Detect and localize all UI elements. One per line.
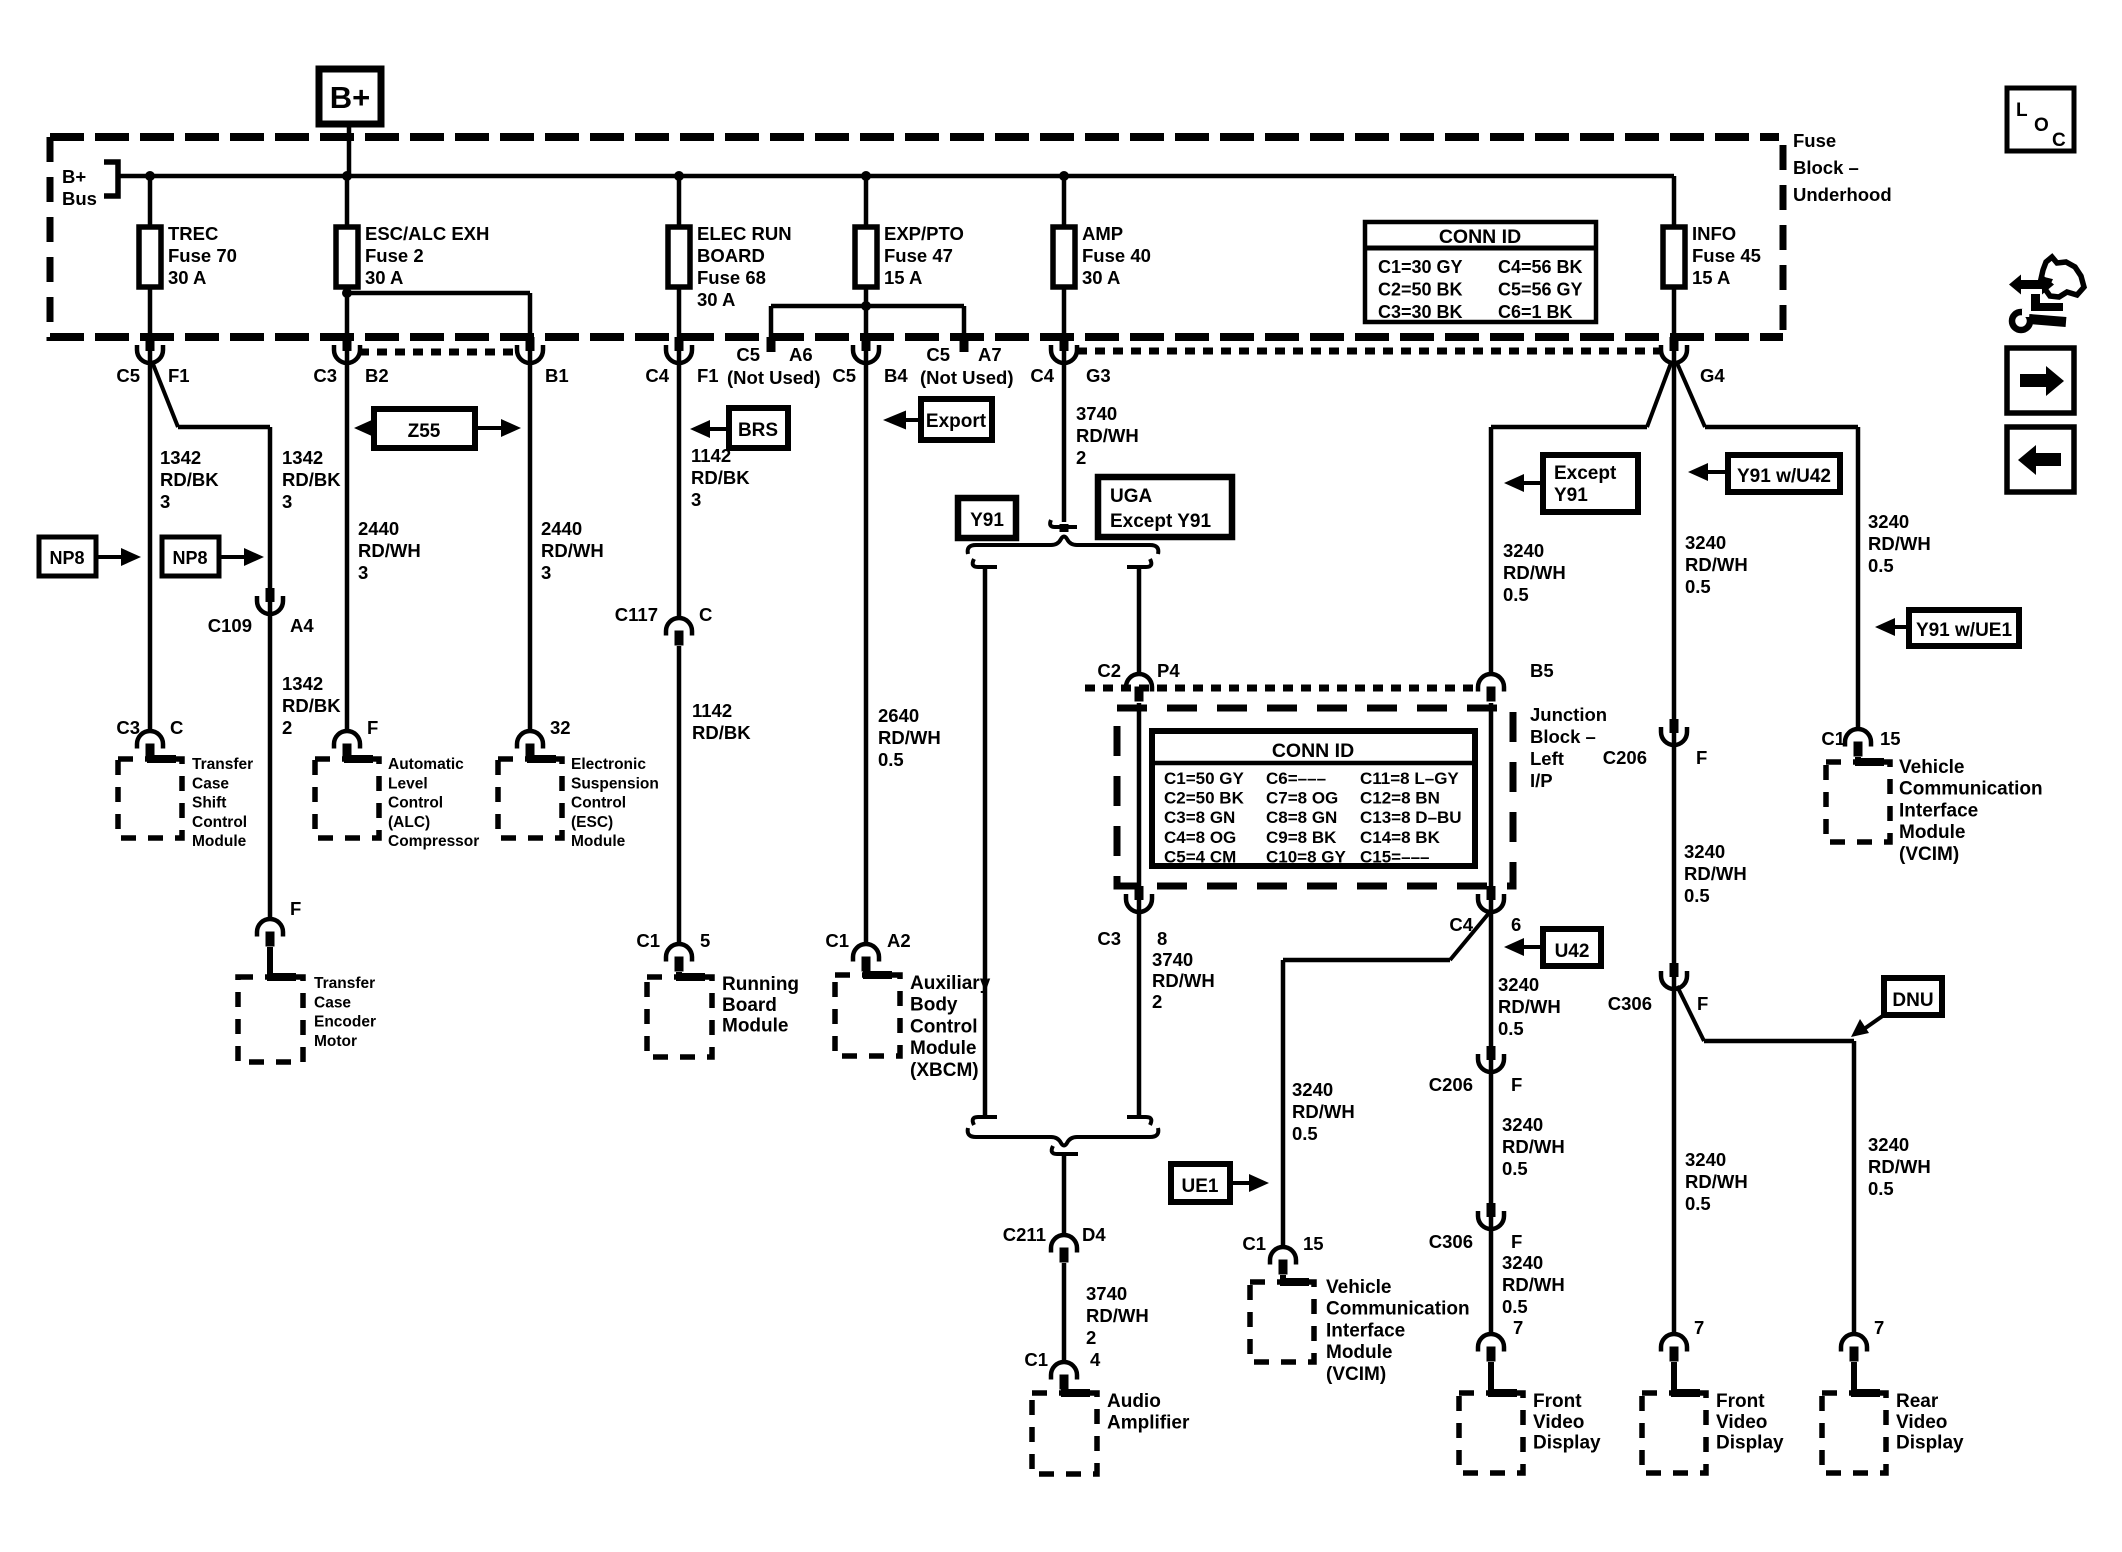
svg-text:EXP/PTO: EXP/PTO	[884, 223, 964, 244]
svg-text:UE1: UE1	[1182, 1176, 1219, 1197]
svg-text:(VCIM): (VCIM)	[1899, 844, 1959, 865]
svg-text:(XBCM): (XBCM)	[910, 1060, 979, 1081]
svg-text:RD/WH: RD/WH	[541, 540, 604, 561]
svg-text:15 A: 15 A	[884, 267, 922, 288]
svg-text:B+: B+	[62, 166, 86, 187]
svg-text:Module: Module	[1899, 822, 1966, 843]
svg-text:RD/BK: RD/BK	[160, 469, 219, 490]
svg-text:3240: 3240	[1498, 974, 1539, 995]
svg-text:Interface: Interface	[1326, 1320, 1405, 1341]
svg-text:C: C	[170, 717, 183, 738]
svg-text:C5: C5	[736, 344, 760, 365]
svg-text:Board: Board	[722, 995, 777, 1016]
svg-text:Export: Export	[926, 411, 987, 432]
svg-text:3240: 3240	[1292, 1079, 1333, 1100]
svg-text:RD/WH: RD/WH	[1498, 996, 1561, 1017]
svg-text:A2: A2	[887, 930, 911, 951]
svg-text:8: 8	[1157, 928, 1167, 949]
svg-text:CONN ID: CONN ID	[1439, 226, 1521, 248]
svg-text:1142: 1142	[691, 445, 731, 466]
svg-text:0.5: 0.5	[1498, 1018, 1524, 1039]
svg-text:C3: C3	[313, 365, 337, 386]
svg-text:Interface: Interface	[1899, 800, 1978, 821]
svg-text:F: F	[367, 717, 378, 738]
svg-text:C211: C211	[1003, 1224, 1046, 1245]
svg-text:RD/WH: RD/WH	[1076, 425, 1139, 446]
svg-text:0.5: 0.5	[1868, 1178, 1894, 1199]
svg-text:RD/WH: RD/WH	[1685, 1171, 1748, 1192]
svg-text:Video: Video	[1896, 1412, 1947, 1433]
svg-text:Body: Body	[910, 995, 958, 1016]
svg-text:Fuse 47: Fuse 47	[884, 245, 953, 266]
svg-text:RD/WH: RD/WH	[1502, 1274, 1565, 1295]
svg-text:BRS: BRS	[738, 420, 778, 441]
svg-text:C4=56 BK: C4=56 BK	[1498, 257, 1583, 277]
svg-text:Audio: Audio	[1107, 1391, 1161, 1412]
svg-text:RD/BK: RD/BK	[282, 695, 341, 716]
svg-text:C3=8 GN: C3=8 GN	[1164, 808, 1235, 827]
svg-text:30 A: 30 A	[365, 267, 403, 288]
svg-text:C1=30 GY: C1=30 GY	[1378, 257, 1463, 277]
svg-text:NP8: NP8	[172, 548, 207, 568]
svg-text:(ESC): (ESC)	[571, 814, 613, 831]
svg-text:C4: C4	[1030, 365, 1054, 386]
svg-text:C1: C1	[1242, 1233, 1266, 1254]
svg-text:0.5: 0.5	[1868, 555, 1894, 576]
svg-text:P4: P4	[1157, 660, 1180, 681]
svg-text:Motor: Motor	[314, 1033, 357, 1050]
svg-text:C4: C4	[1449, 914, 1473, 935]
svg-text:RD/WH: RD/WH	[878, 727, 941, 748]
svg-text:Video: Video	[1716, 1412, 1767, 1433]
svg-text:RD/WH: RD/WH	[1684, 863, 1747, 884]
svg-text:2640: 2640	[878, 705, 919, 726]
svg-text:(Not Used): (Not Used)	[727, 367, 821, 388]
svg-text:C7=8 OG: C7=8 OG	[1266, 789, 1338, 808]
svg-text:Shift: Shift	[192, 795, 226, 812]
svg-text:A4: A4	[290, 615, 314, 636]
svg-text:Display: Display	[1716, 1433, 1784, 1454]
svg-text:C1=50 GY: C1=50 GY	[1164, 769, 1245, 788]
svg-text:A7: A7	[978, 344, 1002, 365]
svg-text:Display: Display	[1896, 1433, 1964, 1454]
svg-text:Front: Front	[1533, 1391, 1582, 1412]
svg-text:Front: Front	[1716, 1391, 1765, 1412]
svg-text:C5: C5	[926, 344, 950, 365]
svg-text:Fuse: Fuse	[1793, 130, 1836, 151]
svg-text:F: F	[1511, 1231, 1522, 1252]
svg-text:RD/BK: RD/BK	[282, 469, 341, 490]
svg-text:Bus: Bus	[62, 188, 97, 209]
svg-text:Block –: Block –	[1793, 157, 1859, 178]
svg-text:Video: Video	[1533, 1412, 1584, 1433]
svg-text:3: 3	[160, 491, 170, 512]
svg-text:Vehicle: Vehicle	[1899, 757, 1965, 778]
svg-text:UGA: UGA	[1110, 486, 1153, 507]
svg-text:RD/WH: RD/WH	[358, 540, 421, 561]
svg-text:4: 4	[1090, 1349, 1101, 1370]
svg-text:RD/BK: RD/BK	[691, 467, 750, 488]
svg-text:RD/WH: RD/WH	[1503, 562, 1566, 583]
svg-text:ELEC RUN: ELEC RUN	[697, 223, 792, 244]
svg-text:3: 3	[282, 491, 292, 512]
svg-text:Fuse 40: Fuse 40	[1082, 245, 1151, 266]
svg-text:3740: 3740	[1076, 403, 1117, 424]
svg-text:Block –: Block –	[1530, 726, 1596, 747]
svg-text:C9=8 BK: C9=8 BK	[1266, 828, 1337, 847]
svg-text:5: 5	[700, 930, 710, 951]
svg-text:C5=56 GY: C5=56 GY	[1498, 280, 1583, 300]
svg-text:Y91: Y91	[1554, 485, 1588, 506]
svg-text:RD/WH: RD/WH	[1152, 970, 1215, 991]
svg-text:Module: Module	[722, 1016, 789, 1037]
svg-text:Except Y91: Except Y91	[1110, 511, 1211, 532]
svg-text:C2: C2	[1097, 660, 1121, 681]
svg-text:Control: Control	[192, 814, 247, 831]
svg-text:G4: G4	[1700, 365, 1725, 386]
svg-text:F: F	[1697, 993, 1708, 1014]
svg-text:C5: C5	[116, 365, 140, 386]
svg-text:C6=1 BK: C6=1 BK	[1498, 302, 1573, 322]
svg-text:2: 2	[282, 717, 292, 738]
svg-text:0.5: 0.5	[1292, 1123, 1318, 1144]
svg-text:2440: 2440	[541, 518, 582, 539]
svg-text:0.5: 0.5	[878, 749, 904, 770]
svg-text:(VCIM): (VCIM)	[1326, 1364, 1386, 1385]
svg-text:C206: C206	[1429, 1074, 1473, 1095]
svg-text:C1: C1	[1821, 728, 1845, 749]
svg-text:B+: B+	[330, 80, 371, 115]
svg-text:I/P: I/P	[1530, 770, 1553, 791]
svg-text:3240: 3240	[1684, 841, 1725, 862]
svg-text:Level: Level	[388, 775, 428, 792]
svg-text:Automatic: Automatic	[388, 756, 464, 773]
svg-text:Fuse 2: Fuse 2	[365, 245, 424, 266]
svg-text:3740: 3740	[1086, 1283, 1127, 1304]
svg-text:7: 7	[1513, 1317, 1523, 1338]
svg-text:L: L	[2016, 100, 2028, 121]
svg-text:Control: Control	[571, 795, 626, 812]
svg-text:Module: Module	[1326, 1342, 1393, 1363]
svg-text:3: 3	[358, 562, 368, 583]
svg-text:(ALC): (ALC)	[388, 814, 430, 831]
svg-text:C12=8 BN: C12=8 BN	[1360, 789, 1440, 808]
svg-text:Y91: Y91	[970, 510, 1004, 531]
svg-text:Control: Control	[388, 795, 443, 812]
svg-text:C3: C3	[1097, 928, 1121, 949]
svg-text:Encoder: Encoder	[314, 1014, 376, 1031]
svg-text:C: C	[2052, 130, 2066, 151]
svg-text:AMP: AMP	[1082, 223, 1123, 244]
svg-text:3240: 3240	[1868, 1134, 1909, 1155]
svg-text:0.5: 0.5	[1685, 1193, 1711, 1214]
svg-text:7: 7	[1874, 1317, 1884, 1338]
svg-text:C4=8 OG: C4=8 OG	[1164, 828, 1236, 847]
svg-text:0.5: 0.5	[1685, 576, 1711, 597]
svg-text:Except: Except	[1554, 463, 1617, 484]
svg-text:15: 15	[1303, 1233, 1324, 1254]
svg-text:C5: C5	[832, 365, 856, 386]
svg-text:RD/BK: RD/BK	[692, 722, 751, 743]
svg-text:B5: B5	[1530, 660, 1554, 681]
svg-text:F: F	[1511, 1074, 1522, 1095]
svg-text:30 A: 30 A	[1082, 267, 1120, 288]
svg-text:RD/WH: RD/WH	[1086, 1305, 1149, 1326]
svg-text:C10=8 GY: C10=8 GY	[1266, 847, 1347, 866]
svg-text:30 A: 30 A	[168, 267, 206, 288]
svg-text:7: 7	[1694, 1317, 1704, 1338]
svg-text:1142: 1142	[692, 700, 732, 721]
svg-text:CONN ID: CONN ID	[1272, 740, 1354, 762]
svg-text:Communication: Communication	[1899, 779, 2043, 800]
svg-text:C1: C1	[825, 930, 849, 951]
svg-text:C306: C306	[1608, 993, 1652, 1014]
svg-text:F: F	[1696, 747, 1707, 768]
svg-text:C206: C206	[1603, 747, 1647, 768]
svg-text:Display: Display	[1533, 1433, 1601, 1454]
svg-text:B2: B2	[365, 365, 389, 386]
svg-text:Suspension: Suspension	[571, 775, 659, 792]
svg-text:B1: B1	[545, 365, 569, 386]
svg-text:B4: B4	[884, 365, 908, 386]
svg-text:DNU: DNU	[1892, 990, 1933, 1011]
svg-text:15: 15	[1880, 728, 1901, 749]
svg-text:Case: Case	[192, 775, 229, 792]
svg-text:0.5: 0.5	[1502, 1158, 1528, 1179]
svg-text:C: C	[699, 604, 712, 625]
svg-text:C5=4 CM: C5=4 CM	[1164, 847, 1236, 866]
svg-text:C2=50 BK: C2=50 BK	[1378, 280, 1463, 300]
svg-text:F1: F1	[168, 365, 190, 386]
svg-text:3240: 3240	[1502, 1252, 1543, 1273]
svg-text:Y91 w/UE1: Y91 w/UE1	[1916, 620, 2013, 641]
svg-text:NP8: NP8	[49, 548, 84, 568]
svg-text:Transfer: Transfer	[192, 756, 253, 773]
svg-text:Transfer: Transfer	[314, 975, 375, 992]
svg-text:C14=8 BK: C14=8 BK	[1360, 828, 1441, 847]
svg-text:0.5: 0.5	[1502, 1296, 1528, 1317]
svg-text:Rear: Rear	[1896, 1391, 1939, 1412]
svg-text:C109: C109	[208, 615, 252, 636]
svg-text:Underhood: Underhood	[1793, 184, 1892, 205]
svg-text:Electronic: Electronic	[571, 756, 646, 773]
svg-text:A6: A6	[789, 344, 813, 365]
svg-text:Running: Running	[722, 974, 799, 995]
svg-text:RD/WH: RD/WH	[1868, 1156, 1931, 1177]
svg-text:RD/WH: RD/WH	[1292, 1101, 1355, 1122]
svg-text:C306: C306	[1429, 1231, 1473, 1252]
svg-text:Y91 w/U42: Y91 w/U42	[1737, 466, 1831, 487]
svg-text:15 A: 15 A	[1692, 267, 1730, 288]
svg-text:F: F	[290, 898, 301, 919]
svg-text:C3: C3	[116, 717, 140, 738]
svg-text:C11=8 L–GY: C11=8 L–GY	[1360, 769, 1459, 788]
svg-text:U42: U42	[1555, 941, 1590, 962]
svg-text:Communication: Communication	[1326, 1299, 1470, 1320]
svg-text:2440: 2440	[358, 518, 399, 539]
svg-text:ESC/ALC EXH: ESC/ALC EXH	[365, 223, 489, 244]
svg-text:Compressor: Compressor	[388, 833, 479, 850]
svg-text:C6=–––: C6=–––	[1266, 769, 1326, 788]
svg-text:Left: Left	[1530, 748, 1564, 769]
svg-text:Case: Case	[314, 994, 351, 1011]
svg-text:2: 2	[1086, 1327, 1096, 1348]
svg-text:2: 2	[1076, 447, 1086, 468]
svg-text:G3: G3	[1086, 365, 1111, 386]
svg-text:RD/WH: RD/WH	[1502, 1136, 1565, 1157]
svg-text:Amplifier: Amplifier	[1107, 1413, 1190, 1434]
svg-text:Fuse 70: Fuse 70	[168, 245, 237, 266]
svg-text:Module: Module	[910, 1038, 977, 1059]
svg-text:3: 3	[541, 562, 551, 583]
svg-text:1342: 1342	[282, 447, 323, 468]
svg-text:INFO: INFO	[1692, 223, 1736, 244]
svg-text:C3=30 BK: C3=30 BK	[1378, 302, 1463, 322]
svg-text:3240: 3240	[1685, 532, 1726, 553]
svg-text:C117: C117	[615, 604, 658, 625]
svg-text:C13=8 D–BU: C13=8 D–BU	[1360, 808, 1462, 827]
svg-text:3240: 3240	[1868, 511, 1909, 532]
svg-text:3240: 3240	[1503, 540, 1544, 561]
svg-text:Control: Control	[910, 1016, 978, 1037]
svg-text:C2=50 BK: C2=50 BK	[1164, 789, 1245, 808]
svg-text:BOARD: BOARD	[697, 245, 765, 266]
svg-text:1342: 1342	[282, 673, 323, 694]
svg-text:2: 2	[1152, 991, 1162, 1012]
svg-text:0.5: 0.5	[1684, 885, 1710, 906]
svg-text:RD/WH: RD/WH	[1868, 533, 1931, 554]
svg-text:D4: D4	[1082, 1224, 1106, 1245]
svg-text:30 A: 30 A	[697, 289, 735, 310]
svg-text:3: 3	[691, 489, 701, 510]
svg-text:6: 6	[1511, 914, 1521, 935]
svg-text:C15=–––: C15=–––	[1360, 847, 1429, 866]
svg-text:C1: C1	[636, 930, 660, 951]
svg-text:O: O	[2034, 115, 2049, 136]
svg-text:Module: Module	[192, 833, 247, 850]
svg-text:Z55: Z55	[408, 421, 441, 442]
svg-text:32: 32	[550, 717, 571, 738]
svg-text:C1: C1	[1024, 1349, 1048, 1370]
svg-text:(Not Used): (Not Used)	[920, 367, 1014, 388]
svg-text:TREC: TREC	[168, 223, 218, 244]
svg-text:3240: 3240	[1685, 1149, 1726, 1170]
svg-text:3240: 3240	[1502, 1114, 1543, 1135]
svg-text:Vehicle: Vehicle	[1326, 1277, 1392, 1298]
svg-text:1342: 1342	[160, 447, 201, 468]
svg-text:Fuse 68: Fuse 68	[697, 267, 766, 288]
svg-text:3740: 3740	[1152, 949, 1193, 970]
svg-text:RD/WH: RD/WH	[1685, 554, 1748, 575]
svg-text:0.5: 0.5	[1503, 584, 1529, 605]
svg-text:Junction: Junction	[1530, 704, 1607, 725]
svg-text:C8=8 GN: C8=8 GN	[1266, 808, 1337, 827]
svg-text:C4: C4	[645, 365, 669, 386]
svg-text:Module: Module	[571, 833, 626, 850]
svg-text:Fuse 45: Fuse 45	[1692, 245, 1761, 266]
svg-text:F1: F1	[697, 365, 719, 386]
svg-text:Auxiliary: Auxiliary	[910, 973, 991, 994]
